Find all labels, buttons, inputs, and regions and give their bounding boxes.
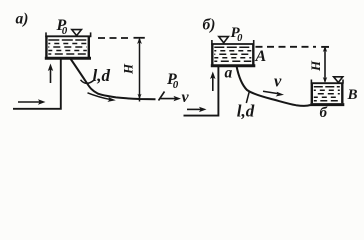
label l,d fig a xyxy=(81,80,94,84)
svg-text:б): б) xyxy=(203,17,216,34)
leader line l,d fig b xyxy=(246,92,249,104)
surface marker nabla T1 xyxy=(72,30,82,36)
tank T1 walls xyxy=(45,32,92,58)
tank TB walls xyxy=(310,80,344,105)
svg-text:а): а) xyxy=(16,11,29,28)
tank T1 liquid hatch xyxy=(48,40,87,54)
exit section slash fig a xyxy=(159,92,165,101)
riser up arrow fig a xyxy=(48,64,53,84)
surface marker nabla TA xyxy=(219,37,229,43)
tank TA liquid hatch xyxy=(214,47,251,61)
flow arrow under curve fig a xyxy=(88,93,116,102)
inflow pipe L fig a xyxy=(13,58,61,109)
dashed free-surface level line fig a xyxy=(98,37,131,39)
tank TA walls xyxy=(211,40,256,66)
riser up arrow fig b xyxy=(210,72,215,92)
svg-text:v: v xyxy=(274,72,282,91)
svg-text:а: а xyxy=(225,65,233,82)
inflow arrow fig a xyxy=(18,99,46,104)
svg-text:l,d: l,d xyxy=(237,102,255,121)
svg-text:Н: Н xyxy=(120,63,135,75)
tank TB liquid hatch xyxy=(314,87,340,101)
svg-text:Н: Н xyxy=(308,60,323,72)
dashed free-surface level line fig b xyxy=(256,46,317,48)
head dimension line H fig a xyxy=(134,38,145,102)
inflow arrow fig b xyxy=(187,107,207,112)
outflow pipe curve fig a xyxy=(70,58,156,99)
surface marker nabla TB xyxy=(334,77,343,83)
svg-text:б: б xyxy=(320,105,328,121)
svg-text:v: v xyxy=(182,89,190,106)
svg-text:A: A xyxy=(255,48,267,65)
connecting pipe curve fig b xyxy=(237,66,311,106)
svg-text:l,d: l,d xyxy=(93,66,111,85)
inflow pipe L fig b xyxy=(184,66,219,116)
svg-text:B: B xyxy=(347,87,358,103)
flow arrow v fig b xyxy=(263,91,284,96)
exit velocity arrow fig a xyxy=(160,96,182,101)
head dimension line H fig b xyxy=(321,46,329,83)
